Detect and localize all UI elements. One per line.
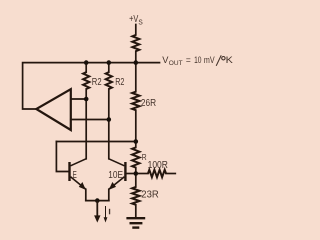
resistor 23R (132, 187, 139, 205)
svg-text:26R: 26R (141, 98, 156, 109)
wire feedback loop: op-amp output left, up, and top rail to main node (23, 63, 136, 109)
wire R to lower tap node (135, 168, 137, 187)
wire 23R to ground (135, 205, 137, 218)
svg-text:K: K (226, 55, 233, 65)
junction dot: top rail / left R2 (84, 60, 89, 65)
junction dot: R-23R tap (134, 171, 139, 176)
wire +Vs lead (135, 25, 137, 35)
current source arrow I (94, 201, 100, 223)
resistor 100R (148, 170, 166, 177)
wire VOUT lead (136, 62, 160, 64)
svg-text:100R: 100R (148, 160, 168, 171)
svg-text:R2: R2 (92, 77, 102, 88)
wire Q1 emitter drop (85, 189, 87, 200)
wire below supply resistor (135, 51, 137, 62)
wire 100R right lead (166, 173, 175, 175)
op-amp A1 (36, 89, 71, 130)
wire left R2 bottom to Q1 collector (85, 89, 87, 159)
junction dot: VOUT node (134, 60, 139, 65)
svg-text:10: 10 (194, 55, 201, 65)
label I (109, 209, 110, 215)
wire common emitter (86, 200, 109, 202)
resistor (supply, unlabeled) (132, 35, 139, 51)
current direction arrow (104, 206, 108, 223)
svg-text:+V: +V (129, 14, 138, 25)
junction dot: 26R-R tap (134, 139, 139, 144)
resistor R2 (right) (106, 72, 112, 89)
junction dot: inverting input / collector Q2 (107, 117, 112, 122)
junction dot: noninverting input / collector Q1 (84, 97, 89, 102)
ground (126, 218, 145, 227)
Q2 emitter arrowhead (109, 182, 116, 190)
transistor Q1 (E) (70, 159, 87, 190)
resistor R2 (left) (83, 72, 89, 89)
svg-text:R2: R2 (115, 77, 125, 88)
svg-text:S: S (138, 18, 142, 27)
Q1 emitter arrowhead (79, 182, 86, 190)
svg-text:mV: mV (204, 55, 215, 65)
wire 100R left lead (136, 173, 148, 175)
wire right R2 top lead (108, 63, 110, 73)
wire Q2 base to lower tap (126, 173, 135, 175)
transistor Q2 (10E) (109, 159, 126, 190)
wire op-amp inverting input (71, 119, 109, 121)
svg-text:R: R (142, 153, 147, 162)
svg-text:OUT: OUT (169, 60, 183, 67)
wire base rail from Q1 base to tap node (56, 141, 135, 143)
wire Q1 base drop (56, 142, 68, 172)
wire VOUT node to 26R (135, 63, 137, 92)
svg-text:23R: 23R (141, 189, 159, 200)
wire left R2 top lead (85, 63, 87, 73)
svg-text:10E: 10E (108, 170, 123, 181)
svg-text:E: E (73, 170, 77, 181)
junction dot: top rail / right R2 (107, 60, 112, 65)
wire op-amp noninverting input (71, 98, 86, 100)
resistor R (132, 147, 139, 167)
resistor 26R (132, 92, 139, 111)
junction dot: common emitters (95, 198, 100, 203)
svg-text:=: = (186, 55, 191, 65)
svg-text:V: V (162, 55, 168, 65)
wire Q2 emitter drop (108, 189, 110, 200)
wire 26R to base tap node (135, 110, 137, 147)
wire right R2 bottom to Q2 collector (108, 89, 110, 159)
